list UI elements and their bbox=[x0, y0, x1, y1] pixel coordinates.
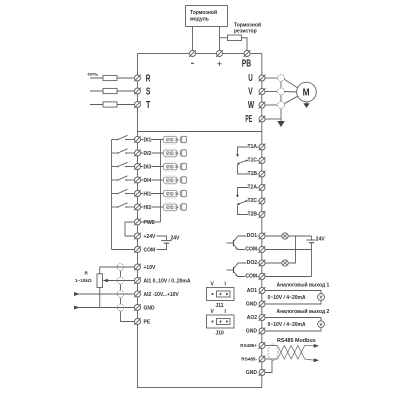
terminal T1A bbox=[248, 144, 266, 151]
svg-text:M: M bbox=[303, 88, 310, 99]
terminal DO1 bbox=[247, 233, 266, 240]
measuring loop AO2 bbox=[265, 318, 321, 332]
svg-text:DI2: DI2 bbox=[144, 151, 152, 157]
svg-text:PWE: PWE bbox=[144, 220, 156, 226]
svg-text:HI1: HI1 bbox=[144, 191, 152, 197]
wire: V cable into motor bbox=[285, 91, 297, 94]
cable shield pass-through on W bbox=[278, 102, 285, 109]
wire: DI3 to optocoupler bbox=[141, 166, 164, 168]
wire: HI1 to optocoupler bbox=[141, 193, 164, 195]
wire: GND to cable shield bbox=[265, 360, 272, 372]
terminal PB bbox=[242, 50, 251, 69]
svg-text:0~10V / 4~20mA: 0~10V / 4~20mA bbox=[268, 322, 306, 328]
ground symbol of motor cable shield bbox=[277, 121, 285, 127]
svg-text:U: U bbox=[248, 73, 253, 84]
svg-text:AO1: AO1 bbox=[247, 288, 258, 294]
wire: DO2 lamp to rail link bbox=[288, 236, 295, 263]
measuring loop AO1 bbox=[265, 291, 321, 305]
jumper wire PWE to +24V bbox=[125, 222, 135, 236]
twisted pair wire B bbox=[278, 346, 315, 361]
cable shield ellipse bbox=[268, 344, 278, 361]
analog cable shield pass-through +10V bbox=[117, 264, 124, 271]
terminal AI2 bbox=[134, 291, 179, 298]
svg-text:+24V: +24V bbox=[144, 234, 156, 240]
wire: mains phase to R bbox=[90, 77, 135, 79]
brake resistor label bbox=[234, 22, 261, 35]
jumper block J11 bbox=[207, 282, 235, 310]
terminal T2A bbox=[248, 184, 266, 191]
svg-text:PB: PB bbox=[242, 58, 251, 69]
wire: mains phase to S bbox=[90, 90, 135, 92]
terminal AI1 bbox=[134, 277, 191, 284]
svg-text:DI1: DI1 bbox=[144, 137, 152, 143]
optocoupler DI4 input bbox=[164, 176, 187, 185]
relay 1 moving arm T1C bbox=[237, 160, 259, 165]
relay 1 contact T1A fixed bbox=[236, 147, 259, 157]
external input arrow AI2 bbox=[74, 292, 134, 296]
wire: brake module lead to plus terminal bbox=[219, 27, 221, 51]
analog cable shield pass-through AI1 bbox=[117, 277, 124, 284]
brake module box bbox=[186, 6, 228, 27]
wire: DI4 to optocoupler bbox=[141, 179, 164, 181]
voltmeter on AO1 bbox=[318, 294, 325, 301]
svg-text:24V: 24V bbox=[316, 237, 326, 243]
svg-text:+10V: +10V bbox=[144, 265, 156, 271]
terminal PE (analog shield) bbox=[134, 318, 151, 325]
optocoupler HI1 input bbox=[164, 189, 187, 198]
svg-text:AO2: AO2 bbox=[247, 315, 258, 321]
cable shield pass-through on V bbox=[278, 88, 285, 95]
terminal COM (DO1) bbox=[245, 246, 265, 253]
wire: W cable into motor bbox=[284, 96, 298, 104]
terminal W bbox=[248, 100, 266, 111]
optocoupler DI2 input bbox=[164, 149, 187, 158]
terminal AO1 bbox=[247, 287, 266, 294]
switch for DI2 bbox=[112, 149, 135, 154]
external input arrow GND bbox=[74, 306, 100, 310]
terminal RS485+ bbox=[240, 342, 265, 349]
analog cable shield pass-through GND bbox=[117, 304, 124, 311]
terminal T2B bbox=[248, 211, 266, 218]
wire: DO1 lamp to 24V rail bbox=[288, 235, 311, 237]
svg-text:Аналоговый выход 1: Аналоговый выход 1 bbox=[277, 281, 330, 288]
frequency inverter main enclosure box bbox=[138, 54, 262, 388]
wire: brake module lead to minus terminal bbox=[192, 27, 194, 51]
wire: U cable into motor bbox=[284, 79, 297, 87]
svg-text:T1C: T1C bbox=[248, 158, 258, 164]
svg-text:J10: J10 bbox=[216, 331, 225, 337]
wire: HI2 to optocoupler bbox=[141, 206, 164, 208]
svg-text:R: R bbox=[146, 73, 151, 84]
analog shield bond to PE bbox=[121, 271, 135, 322]
svg-text:+: + bbox=[217, 59, 222, 69]
wire: mains phase to T bbox=[90, 104, 135, 106]
svg-text:0~10V / 4~20mA: 0~10V / 4~20mA bbox=[268, 295, 306, 301]
svg-text:W: W bbox=[248, 100, 255, 111]
terminal COM (24V common) bbox=[134, 246, 155, 253]
svg-text:модуль: модуль bbox=[190, 17, 209, 23]
terminal S bbox=[134, 86, 151, 97]
fuse on R line bbox=[103, 75, 117, 80]
svg-text:PE: PE bbox=[144, 319, 151, 325]
wire: battery negative to COM rails bbox=[265, 243, 312, 277]
svg-text:T1A: T1A bbox=[248, 144, 258, 150]
wire: DI1 to optocoupler bbox=[141, 139, 164, 141]
arrow bus B bbox=[314, 358, 319, 362]
svg-text:GND: GND bbox=[246, 370, 258, 376]
open collector transistor DO1 bbox=[227, 236, 259, 250]
internal 24V supply battery bbox=[157, 236, 181, 250]
svg-text:24V: 24V bbox=[171, 236, 181, 242]
potentiometer R 1~10k bbox=[75, 271, 103, 288]
switch for HI2 bbox=[112, 203, 135, 208]
terminal +10V bbox=[134, 264, 156, 271]
wire: DI2 to optocoupler bbox=[141, 152, 164, 154]
wire: potentiometer bottom to GND bbox=[100, 288, 135, 308]
svg-text:PE: PE bbox=[245, 114, 252, 125]
terminal V bbox=[248, 86, 265, 97]
svg-text:T2A: T2A bbox=[248, 185, 258, 191]
relay 1 contact T1B fixed bbox=[238, 165, 259, 174]
wire: V to motor cable bbox=[265, 91, 277, 93]
svg-text:GND: GND bbox=[246, 329, 258, 335]
svg-text:AI2 -10V...+10V: AI2 -10V...+10V bbox=[144, 292, 180, 298]
wire: W to motor cable bbox=[265, 104, 277, 106]
terminal PE (motor side) bbox=[245, 114, 265, 125]
svg-text:DO2: DO2 bbox=[247, 260, 258, 266]
arrow bus A bbox=[314, 344, 319, 348]
shield bond vertical between pass-throughs bbox=[280, 82, 282, 121]
terminal COM (DO2) bbox=[245, 273, 265, 280]
wire: RS485- to twisted pair bbox=[265, 358, 278, 360]
open collector transistor DO2 bbox=[227, 263, 259, 277]
switch for HI1 bbox=[112, 189, 135, 194]
load lamp on DO2 bbox=[282, 260, 288, 266]
voltmeter on AO2 bbox=[318, 321, 325, 328]
wire: plus lead to brake resistor bbox=[220, 37, 228, 39]
wire: potentiometer top to +10V bbox=[100, 267, 135, 274]
svg-text:HI2: HI2 bbox=[144, 205, 152, 211]
relay 2 moving arm T2C bbox=[237, 200, 259, 205]
svg-text:сеть: сеть bbox=[88, 73, 99, 78]
svg-text:S: S bbox=[146, 86, 151, 97]
terminal T bbox=[134, 100, 150, 111]
terminal T2C bbox=[248, 198, 266, 205]
svg-text:1~10kΩ: 1~10kΩ bbox=[75, 278, 92, 283]
terminal GND (AO1) bbox=[246, 301, 266, 308]
svg-text:GND: GND bbox=[246, 302, 258, 308]
cable shield pass-through on U bbox=[278, 75, 285, 82]
svg-text:COM: COM bbox=[245, 274, 257, 280]
svg-text:T: T bbox=[146, 100, 150, 111]
svg-text:DI3: DI3 bbox=[144, 164, 152, 170]
relay 2 contact T2B fixed bbox=[238, 205, 259, 214]
fuse on S line bbox=[103, 88, 117, 93]
terminal T1C bbox=[248, 157, 266, 164]
svg-text:V: V bbox=[248, 86, 253, 97]
potentiometer wiper arrow to AI1 bbox=[103, 279, 135, 283]
wire: U to motor cable bbox=[265, 77, 277, 79]
terminal R bbox=[134, 73, 150, 84]
load lamp on DO1 bbox=[282, 233, 288, 239]
terminal DI4 bbox=[134, 177, 151, 184]
brake resistor body bbox=[228, 35, 242, 41]
wire: COM to switch bus bbox=[112, 249, 135, 251]
analog cable shield pass-through AI2 bbox=[117, 291, 124, 298]
terminal AO2 bbox=[247, 314, 266, 321]
terminal DO2 bbox=[247, 260, 266, 267]
svg-text:Тормозной: Тормозной bbox=[190, 9, 217, 16]
svg-text:AI1 0..10V / 0..20mA: AI1 0..10V / 0..20mA bbox=[144, 278, 191, 284]
terminal GND (RS485) bbox=[246, 369, 266, 376]
wire: PWE to optocoupler common chain bbox=[141, 221, 161, 223]
terminal PWE bbox=[134, 219, 155, 226]
optocoupler DI3 input bbox=[164, 162, 187, 171]
terminal DI2 bbox=[134, 150, 151, 157]
input common chain to PWE bbox=[160, 140, 162, 223]
terminal T1B bbox=[248, 171, 266, 178]
svg-text:COM: COM bbox=[245, 247, 257, 253]
external 24V battery for DO loads bbox=[306, 236, 325, 243]
svg-text:T2B: T2B bbox=[248, 212, 258, 218]
terminal +24V bbox=[134, 233, 156, 240]
svg-text:Аналоговый выход 2: Аналоговый выход 2 bbox=[277, 308, 330, 315]
svg-text:RS485 Modbus: RS485 Modbus bbox=[277, 338, 316, 344]
terminal U bbox=[248, 73, 265, 84]
svg-text:резистор: резистор bbox=[234, 29, 257, 35]
svg-text:COM: COM bbox=[144, 247, 156, 253]
switch common bus bbox=[111, 140, 113, 250]
jumper block J10 bbox=[207, 309, 235, 337]
svg-text:Тормозной: Тормозной bbox=[234, 22, 261, 29]
svg-text:GND: GND bbox=[144, 305, 156, 311]
svg-text:T1B: T1B bbox=[248, 171, 258, 177]
terminal HI1 bbox=[134, 190, 151, 197]
terminal GND (analog) bbox=[134, 304, 155, 311]
switch for DI4 bbox=[112, 176, 135, 181]
switch for DI1 bbox=[112, 135, 135, 140]
terminal DI3 bbox=[134, 163, 151, 170]
terminal plus bbox=[216, 50, 223, 69]
wire: DO1 to load lamp bbox=[265, 235, 282, 237]
terminal DI1 bbox=[134, 136, 151, 143]
wire: DO2 to load lamp bbox=[265, 262, 282, 264]
motor M bbox=[297, 82, 317, 102]
svg-text:DO1: DO1 bbox=[247, 233, 258, 239]
svg-text:J11: J11 bbox=[216, 303, 224, 309]
optocoupler DI1 input bbox=[164, 135, 187, 144]
wire: PE to cable shield bbox=[265, 118, 281, 120]
wire: RS485+ to twisted pair bbox=[265, 345, 278, 347]
terminal RS485- bbox=[241, 356, 265, 363]
svg-text:DI4: DI4 bbox=[144, 178, 152, 184]
wire: brake resistor to PB terminal bbox=[242, 38, 248, 51]
motor ground symbol bbox=[303, 102, 309, 108]
svg-text:RS485-: RS485- bbox=[241, 357, 257, 362]
optocoupler HI2 input bbox=[164, 203, 187, 212]
terminal minus bbox=[189, 50, 196, 63]
twisted pair wire A bbox=[278, 346, 315, 360]
relay 2 contact T2A fixed bbox=[236, 188, 259, 198]
svg-text:RS485+: RS485+ bbox=[240, 343, 257, 348]
svg-text:T2C: T2C bbox=[248, 198, 258, 204]
switch for DI3 bbox=[112, 162, 135, 167]
fuse on T line bbox=[103, 102, 117, 107]
section divider line inside enclosure bbox=[138, 131, 262, 133]
terminal HI2 bbox=[134, 204, 151, 211]
terminal GND (AO2) bbox=[246, 328, 266, 335]
